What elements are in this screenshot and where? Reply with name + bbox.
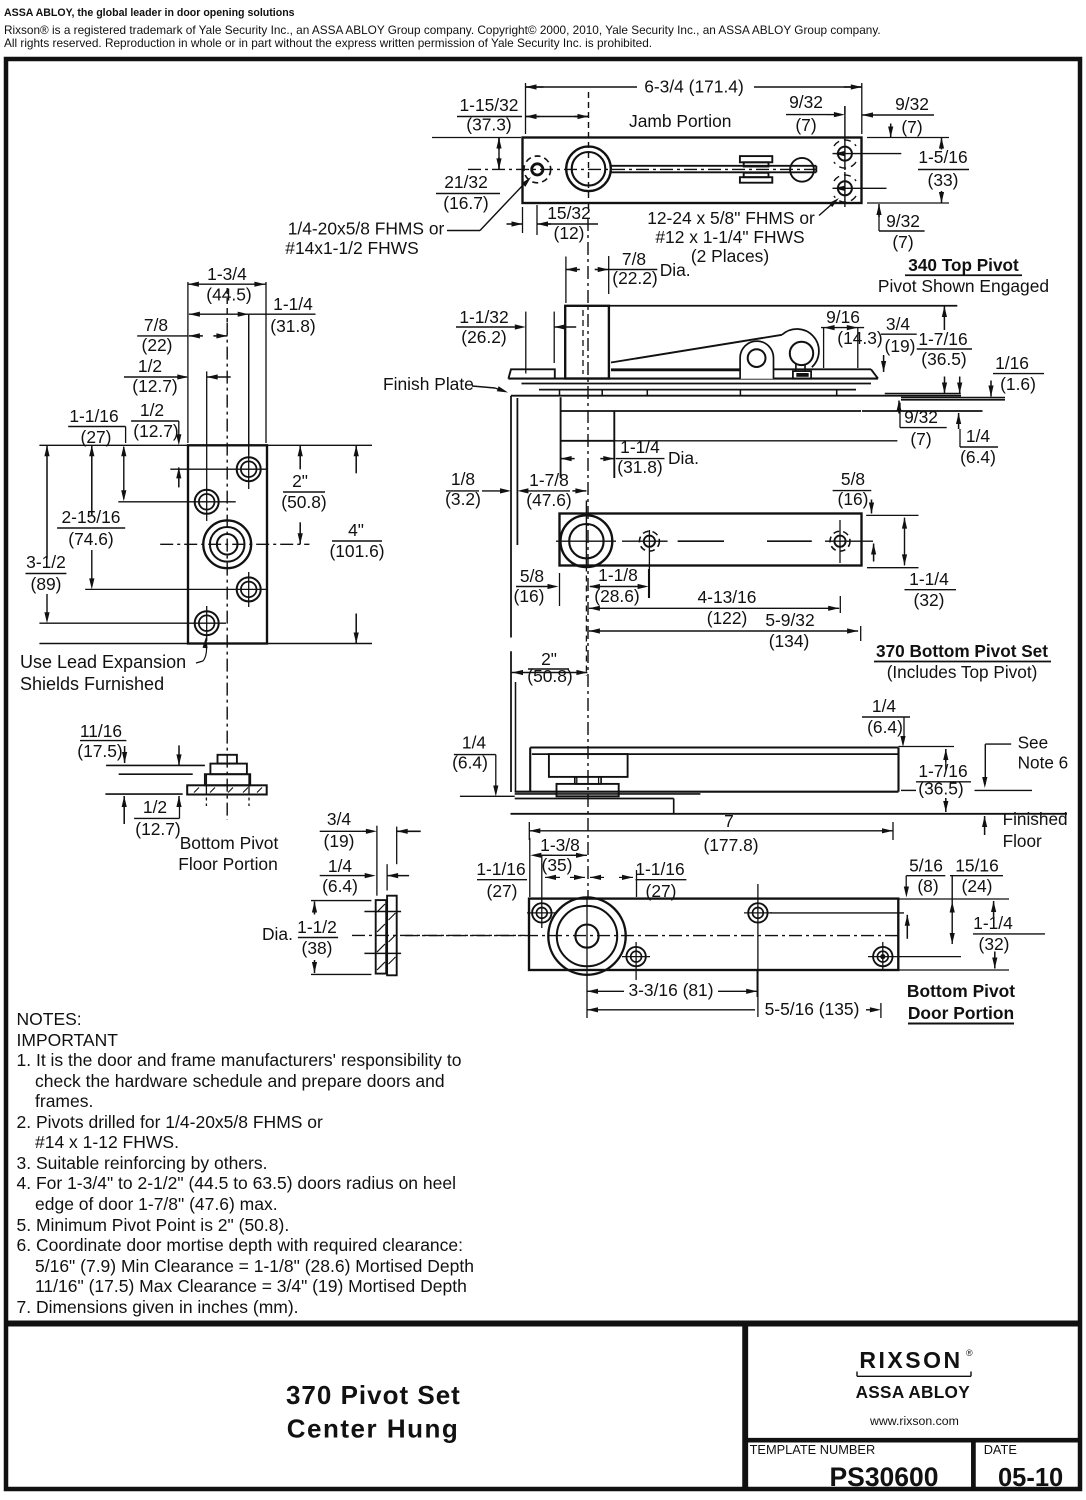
svg-text:(44.5): (44.5) (206, 285, 251, 305)
plate bottom reference line (39, 643, 372, 645)
svg-text:3-1/2: 3-1/2 (26, 552, 66, 572)
title block vertical divider (742, 1324, 748, 1490)
door portion bottom extension (898, 969, 1009, 971)
door portion bushing (548, 897, 625, 974)
svg-text:1-1/16: 1-1/16 (476, 859, 525, 879)
dimension 1-1/16 (27) left dp (476, 856, 585, 901)
svg-text:(7): (7) (795, 115, 816, 135)
dimension 1/2 (12.7) plate first (124, 356, 231, 396)
svg-text:(6.4): (6.4) (452, 753, 488, 773)
plate top reference line (39, 444, 372, 446)
svg-text:1/2: 1/2 (140, 400, 164, 420)
header line 1: ASSA ABLOY tagline (4, 7, 295, 19)
svg-text:Finished: Finished (1003, 809, 1068, 829)
dimension 1/4 (6.4) side view (956, 413, 998, 467)
svg-text:(7): (7) (892, 232, 913, 252)
dimension 1/4 (6.4) lower left (452, 733, 498, 797)
svg-text:(16.7): (16.7) (443, 193, 488, 213)
svg-text:See: See (1018, 733, 1049, 753)
svg-text:2": 2" (292, 471, 308, 491)
svg-text:(31.8): (31.8) (270, 316, 315, 336)
door mortise box (561, 397, 615, 478)
finished floor line (511, 813, 1068, 815)
svg-text:#14 x 1-12 FHWS.: #14 x 1-12 FHWS. (35, 1132, 179, 1152)
svg-text:RIXSON: RIXSON (859, 1347, 962, 1373)
plate flange dividers (560, 390, 837, 396)
svg-text:Pivot Shown Engaged: Pivot Shown Engaged (878, 276, 1049, 296)
svg-text:PS30600: PS30600 (829, 1462, 938, 1492)
svg-text:1-5/16: 1-5/16 (918, 147, 967, 167)
dimension 3-1/2 (89) (26, 445, 67, 623)
svg-text:(8): (8) (917, 876, 938, 896)
floor portion hatching (194, 788, 262, 793)
svg-text:1/4: 1/4 (966, 426, 991, 446)
pin centerline (352, 934, 525, 936)
svg-text:#14x1-1/2 FHWS: #14x1-1/2 FHWS (285, 238, 418, 258)
dimension 5-5/16 (135) (587, 999, 881, 1019)
svg-text:(31.8): (31.8) (617, 457, 662, 477)
floor portion cap (218, 755, 237, 764)
svg-text:(27): (27) (487, 881, 518, 901)
dimension 1-7/8 (47.6) (517, 470, 586, 510)
svg-text:15/16: 15/16 (955, 856, 999, 876)
dimension 11/16 (17.5) (77, 721, 181, 765)
dimension 3-3/16 (81) (587, 970, 757, 1000)
dimension 1-1/8 (28.6) (589, 565, 649, 606)
jamb mounting screw upper (833, 106, 902, 170)
svg-text:(12.7): (12.7) (133, 421, 178, 441)
pivot head (790, 342, 813, 365)
svg-text:9/16: 9/16 (826, 307, 860, 327)
svg-text:(122): (122) (707, 608, 748, 628)
dimension 15/16 (24) (950, 856, 1003, 945)
svg-text:Center Hung: Center Hung (287, 1413, 460, 1443)
svg-text:4. For 1-3/4" to 2-1/2" (44.5: 4. For 1-3/4" to 2-1/2" (44.5 to 63.5) d… (17, 1173, 456, 1193)
dimension 1-1/32 (26.2) (456, 307, 576, 374)
svg-text:1-15/32: 1-15/32 (460, 95, 519, 115)
svg-text:Floor: Floor (1003, 831, 1042, 851)
svg-text:1. It is the door and frame ma: 1. It is the door and frame manufacturer… (17, 1050, 462, 1070)
svg-text:Dia.: Dia. (262, 924, 293, 944)
plate screw hole lower left (39, 606, 226, 641)
dimension 1-1/16 (27) right dp (590, 859, 686, 901)
svg-text:9/32: 9/32 (904, 407, 938, 427)
svg-text:4": 4" (348, 520, 364, 540)
svg-text:1-1/16: 1-1/16 (635, 859, 684, 879)
svg-text:Dia.: Dia. (660, 260, 691, 280)
floor portion base (187, 785, 267, 794)
svg-text:Jamb Portion: Jamb Portion (629, 111, 731, 131)
dimension 9/32 (7) side view (896, 401, 946, 450)
svg-text:1-7/16: 1-7/16 (918, 329, 967, 349)
svg-text:21/32: 21/32 (444, 172, 488, 192)
svg-text:1-1/8: 1-1/8 (598, 565, 638, 585)
dimension 7/8 (22.2) Dia (566, 249, 691, 303)
dashed centerline upper (226, 288, 228, 322)
svg-text:(7): (7) (901, 117, 922, 137)
rail top extension right (899, 746, 955, 748)
svg-text:(33): (33) (928, 170, 959, 190)
svg-text:ASSA ABLOY, the global leader: ASSA ABLOY, the global leader in door op… (4, 7, 295, 19)
mortise bottom extension (614, 440, 897, 442)
svg-text:NOTES:: NOTES: (17, 1009, 82, 1029)
title block separator line (6, 1321, 1080, 1327)
dimension 21/32 (16.7) (432, 138, 521, 214)
set bushing centerlines (556, 501, 616, 566)
bottom pivot set plate (560, 514, 862, 566)
pin plate left bar (376, 900, 387, 974)
svg-text:05-10: 05-10 (998, 1464, 1063, 1492)
dimension 9/32 (7) upper right (862, 94, 934, 138)
dimension 9/32 (7) lower right (876, 204, 924, 252)
dimension 7/8 (22) plate (137, 315, 227, 355)
dimension 1/2 (12.7) plate second (131, 400, 181, 487)
wall plate horizontal centerline (160, 543, 309, 545)
svg-text:15/32: 15/32 (547, 203, 591, 223)
dimension 1-3/8 (35) (530, 835, 587, 897)
svg-text:(16): (16) (838, 489, 869, 509)
jamb top edge extension right (867, 137, 949, 139)
fastener note 1/4-20x5/8 (285, 177, 531, 258)
svg-text:3. Suitable reinforcing by oth: 3. Suitable reinforcing by others. (17, 1153, 268, 1173)
svg-text:Shields Furnished: Shields Furnished (20, 674, 164, 694)
svg-text:(28.6): (28.6) (594, 586, 639, 606)
door bottom rail (530, 748, 898, 793)
door top edge (561, 410, 861, 412)
wall plate (188, 445, 267, 643)
jamb bottom edge extension right (867, 202, 949, 204)
svg-text:1/16: 1/16 (995, 353, 1029, 373)
rixson url (869, 1414, 959, 1428)
arm nose (782, 329, 819, 367)
RIXSON logo (857, 1347, 973, 1377)
screw line horizontal (770, 912, 904, 914)
post top line extension (609, 305, 957, 307)
svg-text:Use Lead Expansion: Use Lead Expansion (20, 652, 186, 672)
svg-text:(19): (19) (885, 336, 916, 356)
dimension 7 (177.8) (529, 811, 893, 855)
svg-text:1/4: 1/4 (872, 696, 897, 716)
svg-text:(22): (22) (142, 335, 173, 355)
dimension 1/4 (6.4) upper right (862, 696, 910, 747)
svg-text:(38): (38) (302, 938, 333, 958)
arm roller (790, 158, 814, 182)
svg-text:(3.2): (3.2) (445, 489, 481, 509)
bottom pivot body (549, 754, 628, 796)
door portion screw top left (527, 884, 556, 928)
jamb plate horizontal centerline (468, 168, 820, 170)
svg-text:Bottom Pivot: Bottom Pivot (180, 833, 279, 853)
header line 3: rights notice (4, 36, 652, 50)
door portion plate (529, 899, 898, 970)
dimension 3/4 (19) pin (320, 809, 421, 896)
svg-text:(6.4): (6.4) (960, 447, 996, 467)
pivot pin block (793, 371, 811, 379)
dimension 1-7/16 (36.5) top (917, 306, 972, 394)
plate bottom line right (885, 393, 961, 395)
svg-text:(6.4): (6.4) (867, 717, 903, 737)
svg-text:2. Pivots drilled for 1/4-20x5: 2. Pivots drilled for 1/4-20x5/8 FHMS or (17, 1112, 324, 1132)
svg-text:(35): (35) (542, 855, 573, 875)
dimension 1-7/16 (36.5) lower (901, 749, 1032, 812)
plate screw hole lower right (85, 572, 268, 607)
door bottom edge (515, 791, 899, 793)
svg-text:(177.8): (177.8) (703, 835, 758, 855)
svg-text:(50.8): (50.8) (281, 492, 326, 512)
jamb portion plate (523, 138, 862, 204)
svg-text:5/8: 5/8 (841, 469, 865, 489)
dimension 1/16 (1.6) (988, 353, 1044, 397)
dimension 4 inch (101.6) (329, 445, 384, 643)
svg-text:(24): (24) (962, 876, 993, 896)
svg-text:2-15/16: 2-15/16 (62, 507, 121, 527)
dimension 5/16 (8) (904, 856, 946, 939)
svg-text:(47.6): (47.6) (526, 490, 571, 510)
svg-text:(26.2): (26.2) (461, 327, 506, 347)
svg-text:1/8: 1/8 (451, 469, 475, 489)
wall plate vertical centerline (226, 323, 228, 820)
svg-text:1/4: 1/4 (328, 856, 353, 876)
svg-text:IMPORTANT: IMPORTANT (17, 1030, 119, 1050)
svg-text:(2 Places): (2 Places) (691, 246, 769, 266)
svg-text:(32): (32) (914, 590, 945, 610)
dimension 1-15/32 (37.3) (457, 95, 589, 135)
svg-text:edge of door 1-7/8" (47.6) max: edge of door 1-7/8" (47.6) max. (35, 1194, 278, 1214)
svg-text:(12.7): (12.7) (135, 819, 180, 839)
svg-text:(27): (27) (646, 881, 677, 901)
dimension 1-1/4 (32) dp (973, 901, 1045, 969)
svg-text:(36.5): (36.5) (918, 779, 963, 799)
dimension 1-5/16 (33) (918, 138, 969, 204)
svg-text:(19): (19) (324, 831, 355, 851)
notes text block (17, 1009, 474, 1317)
svg-text:6-3/4 (171.4): 6-3/4 (171.4) (644, 77, 744, 97)
svg-text:1/2: 1/2 (138, 356, 162, 376)
svg-text:12-24 x 5/8" FHMS or: 12-24 x 5/8" FHMS or (647, 208, 815, 228)
dimension 9/16 (14.3) (821, 307, 883, 368)
dimension 2 inch (50.8) (281, 445, 326, 544)
pivot post (565, 306, 609, 379)
svg-text:1-1/4: 1-1/4 (620, 437, 660, 457)
svg-text:1-1/32: 1-1/32 (459, 307, 508, 327)
pin rail lines (364, 912, 401, 954)
svg-text:DATE: DATE (984, 1442, 1017, 1457)
label bottom pivot floor portion (178, 833, 278, 874)
svg-text:(22.2): (22.2) (612, 268, 657, 288)
svg-text:(74.6): (74.6) (68, 529, 113, 549)
svg-text:1-1/4: 1-1/4 (909, 569, 949, 589)
svg-text:7/8: 7/8 (622, 249, 646, 269)
dimension 1/8 (3.2) (445, 469, 511, 509)
plate center boss (203, 520, 251, 568)
dimension 6-3/4 (171.4) (526, 77, 862, 135)
svg-text:6. Coordinate door mortise dep: 6. Coordinate door mortise depth with re… (17, 1235, 464, 1255)
svg-text:Finish Plate: Finish Plate (383, 374, 474, 394)
dimension 1-1/4 (32) set (866, 515, 956, 610)
title text 370 Pivot Set Center Hung (286, 1380, 461, 1444)
date label (984, 1442, 1017, 1457)
svg-text:www.rixson.com: www.rixson.com (869, 1414, 959, 1428)
jamb small pivot hole (524, 156, 551, 183)
svg-text:(27): (27) (81, 427, 112, 447)
label 340 Top Pivot (905, 255, 1022, 275)
template number value (829, 1462, 938, 1492)
door portion screw mid (622, 942, 650, 980)
svg-text:Bottom Pivot: Bottom Pivot (907, 981, 1015, 1001)
svg-text:(12.7): (12.7) (132, 376, 177, 396)
jamb portion label (629, 111, 731, 131)
svg-text:11/16: 11/16 (80, 721, 122, 741)
svg-text:(6.4): (6.4) (322, 876, 358, 896)
threshold lines (460, 794, 701, 814)
dimension 1/2 (12.7) floor (122, 796, 182, 839)
svg-text:3-3/16 (81): 3-3/16 (81) (628, 980, 713, 1000)
floor portion bolts (206, 774, 249, 806)
dimension 1-1/4 (31.8) plate (189, 294, 316, 455)
svg-text:1-7/8: 1-7/8 (529, 470, 569, 490)
svg-text:(50.8): (50.8) (527, 666, 572, 686)
finish plate label (383, 374, 508, 394)
floor portion step 3 (205, 774, 250, 785)
finish plate (508, 369, 878, 389)
pivot pin neck (796, 365, 805, 372)
svg-text:(36.5): (36.5) (921, 349, 966, 369)
dimension 9/32 (7) upper left (786, 92, 845, 135)
dimension 1/4 (6.4) pin (320, 856, 409, 896)
svg-text:(32): (32) (979, 934, 1010, 954)
dimension 2-15/16 (74.6) (57, 445, 125, 589)
lead expansion shields note (20, 637, 208, 694)
svg-text:1-3/4: 1-3/4 (207, 264, 247, 284)
svg-text:Dia.: Dia. (668, 448, 699, 468)
dimension 5/8 (16) set left (514, 566, 560, 606)
svg-text:(14.3): (14.3) (837, 328, 882, 348)
svg-text:TEMPLATE NUMBER: TEMPLATE NUMBER (750, 1442, 876, 1457)
svg-text:370 Bottom Pivot Set: 370 Bottom Pivot Set (876, 641, 1048, 661)
label 370 bottom pivot set (874, 641, 1051, 682)
ASSA ABLOY logo text (856, 1382, 971, 1402)
template number label (750, 1442, 876, 1457)
svg-text:9/32: 9/32 (895, 94, 929, 114)
svg-text:7/8: 7/8 (144, 315, 168, 335)
svg-text:370 Pivot Set: 370 Pivot Set (286, 1380, 461, 1410)
svg-text:1-1/2: 1-1/2 (297, 917, 337, 937)
dimension 1-1/16 (27) plate top (68, 406, 126, 501)
pivot arm (611, 166, 817, 173)
svg-text:9/32: 9/32 (886, 211, 920, 231)
svg-text:5/16" (7.9) Min Clearance = 1-: 5/16" (7.9) Min Clearance = 1-1/8" (28.6… (35, 1256, 474, 1276)
svg-text:check the hardware schedule an: check the hardware schedule and prepare … (35, 1071, 445, 1091)
door faces left (511, 396, 517, 638)
set bushing (561, 515, 613, 567)
frame soffit line (511, 395, 961, 397)
svg-text:1/4-20x5/8 FHMS or: 1/4-20x5/8 FHMS or (288, 219, 445, 239)
label bottom pivot door portion (907, 981, 1015, 1024)
svg-text:(101.6): (101.6) (329, 541, 384, 561)
screw line vertical mid (757, 884, 759, 1017)
arm adjuster screw head (740, 156, 772, 183)
svg-text:®: ® (966, 1348, 973, 1358)
svg-text:frames.: frames. (35, 1091, 93, 1111)
svg-text:(Includes Top Pivot): (Includes Top Pivot) (887, 662, 1038, 682)
svg-text:11/16" (17.5) Max Clearance =: 11/16" (17.5) Max Clearance = 3/4" (19) … (35, 1276, 467, 1296)
svg-text:#12 x 1-1/4" FHWS: #12 x 1-1/4" FHWS (655, 227, 804, 247)
door face lines lower (511, 651, 516, 792)
svg-text:3/4: 3/4 (327, 809, 352, 829)
label pivot shown engaged (878, 276, 1049, 296)
svg-text:1-1/16: 1-1/16 (69, 406, 118, 426)
dimension 1-1/4 (31.8) Dia (561, 437, 699, 477)
pin plate right bar (387, 896, 397, 976)
finished floor label (982, 809, 1068, 851)
svg-text:3/4: 3/4 (886, 314, 911, 334)
svg-text:(12): (12) (554, 223, 585, 243)
plate screw hole upper left (118, 371, 235, 521)
date value (998, 1464, 1063, 1492)
dimension 2 inch (50.8) set (511, 649, 588, 686)
svg-text:5-9/32: 5-9/32 (765, 610, 814, 630)
svg-text:4-13/16: 4-13/16 (698, 587, 757, 607)
floor portion step 2 (210, 764, 247, 775)
door portion centerline (405, 935, 902, 937)
title block date divider (971, 1440, 976, 1489)
svg-text:(16): (16) (514, 586, 545, 606)
fastener note 12-24 x 5/8 (647, 198, 839, 266)
floor lines left (105, 765, 204, 794)
svg-text:5-5/16 (135): 5-5/16 (135) (765, 999, 860, 1019)
svg-text:1/4: 1/4 (462, 733, 487, 753)
svg-text:7: 7 (724, 811, 734, 831)
dimension 1-3/4 (44.5) (188, 264, 266, 443)
set screw hole mid (622, 530, 668, 598)
header line 2: trademark notice (4, 23, 881, 37)
bushing vertical line (586, 897, 588, 1018)
dimension 3/4 (19) (881, 314, 917, 372)
svg-text:5/16: 5/16 (909, 856, 943, 876)
svg-text:Floor Portion: Floor Portion (178, 854, 278, 874)
svg-text:(1.6): (1.6) (1000, 374, 1036, 394)
door portion screw top mid (744, 903, 772, 922)
svg-text:5. Minimum Pivot Point is 2" (: 5. Minimum Pivot Point is 2" (50.8). (17, 1215, 290, 1235)
dimension 4-13/16 (122) (589, 587, 839, 628)
plate screw hole upper right (170, 314, 268, 489)
dimension 5/8 (16) set top (833, 469, 877, 562)
set centerline dashed below (585, 566, 587, 677)
soffit clearance lines (901, 398, 1005, 400)
svg-text:(37.3): (37.3) (466, 115, 511, 135)
main vertical centerline (587, 218, 589, 897)
svg-text:Note 6: Note 6 (1018, 753, 1069, 773)
svg-text:Rixson® is a registered tradem: Rixson® is a registered trademark of Yal… (4, 23, 881, 37)
door edge line right (862, 410, 983, 412)
svg-text:1-3/8: 1-3/8 (540, 835, 580, 855)
jamb top pivot bushing (566, 147, 611, 192)
door portion top extension (898, 898, 1009, 900)
door portion screw bottom right (868, 942, 961, 971)
title block logo row divider (745, 1438, 1080, 1443)
svg-text:9/32: 9/32 (789, 92, 823, 112)
svg-text:ASSA ABLOY: ASSA ABLOY (856, 1382, 971, 1402)
svg-text:(89): (89) (31, 574, 62, 594)
jamb bushing vertical centerline (588, 92, 590, 213)
svg-text:All rights reserved. Reproduct: All rights reserved. Reproduction in who… (4, 36, 652, 50)
svg-text:(7): (7) (910, 429, 931, 449)
svg-text:340 Top Pivot: 340 Top Pivot (908, 255, 1019, 275)
see note 6 label (982, 733, 1068, 789)
svg-text:1-1/4: 1-1/4 (273, 294, 313, 314)
dimension 15/32 (12) (507, 203, 599, 243)
pin hatching (377, 904, 396, 970)
